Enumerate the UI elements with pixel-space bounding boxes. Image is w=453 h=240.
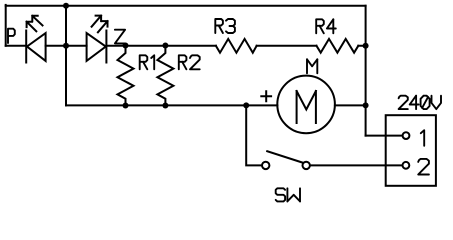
wire to terminal 1 (366, 135, 402, 137)
wire top horizontal (6, 5, 366, 7)
label SW (276, 188, 285, 201)
switch SW left contact (262, 162, 269, 169)
label R1 (140, 55, 148, 69)
junction motor right bus (363, 102, 369, 108)
LED P arrow 1 (32, 16, 42, 26)
label R2 (179, 55, 187, 69)
wire diode/resistor line segments (6, 45, 366, 47)
wire bottom line (66, 104, 277, 106)
resistor R4 (317, 39, 359, 53)
label P (8, 29, 15, 43)
wire motor right (335, 104, 366, 106)
resistor R2 (157, 46, 173, 106)
label R4 (316, 19, 324, 33)
switch SW blade (267, 151, 303, 163)
terminal box 240V (386, 115, 436, 186)
wire middle vertical (65, 6, 67, 106)
junction plus node (243, 102, 249, 108)
label Z (115, 30, 125, 44)
terminal 1 circle (403, 132, 410, 139)
terminal 2 circle (403, 162, 410, 169)
motor M circle (277, 76, 335, 134)
LED Z cathode bar (105, 31, 107, 63)
LED P diode triangle (27, 33, 46, 61)
junction R1 bottom (123, 103, 129, 109)
LED P cathode bar (25, 31, 27, 63)
LED P arrow 2 (27, 22, 37, 32)
switch SW right contact (303, 162, 310, 169)
junction diode line (63, 43, 69, 49)
LED Z arrow 1 (92, 16, 102, 27)
label terminal 2 (418, 159, 429, 175)
label terminal 1 (421, 130, 424, 146)
resistor R1 (118, 46, 134, 106)
wire switch drop (246, 105, 262, 165)
label M above motor (306, 59, 308, 73)
resistor R3 (216, 39, 257, 53)
junction R4 right (363, 43, 369, 49)
junction R2 top (162, 43, 168, 49)
label R3 (215, 19, 223, 33)
motor M letter (297, 91, 316, 123)
junction R1 top (123, 43, 129, 49)
plus sign (261, 91, 271, 101)
wire left vertical (5, 5, 7, 46)
wire switch to terminal 2 (310, 164, 402, 166)
LED Z diode triangle (87, 33, 106, 61)
junction top bus (63, 3, 69, 9)
junction R2 bottom (162, 103, 168, 109)
wire right bus vertical (365, 6, 367, 136)
label 240V (399, 96, 408, 109)
LED Z arrow 2 (98, 21, 108, 32)
